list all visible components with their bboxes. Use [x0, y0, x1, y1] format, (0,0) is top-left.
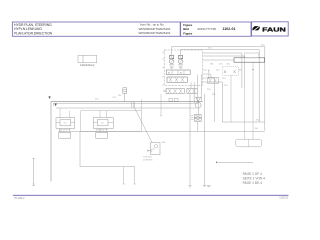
mounting hatch right cylinder: [96, 129, 109, 132]
FAUN logo text: [262, 28, 286, 34]
bus line third: [56, 107, 196, 109]
flow arrow marker top-left: [48, 96, 50, 99]
small connector symbols below cluster A: [169, 98, 178, 101]
svg-text:150: 150: [101, 122, 104, 124]
serial range label: [140, 23, 165, 27]
svg-text:oil HLP46: oil HLP46: [143, 160, 153, 162]
figure label DE: [183, 27, 189, 31]
steering cylinder left: [56, 118, 75, 129]
main circuit boundary left: [51, 102, 203, 182]
nested corner wires right of valve block: [203, 53, 245, 88]
title text EN: [14, 23, 52, 27]
tank text labels: [143, 157, 153, 162]
diagonal hose to pump unit: [135, 108, 152, 143]
svg-text:Figure: Figure: [183, 31, 192, 35]
wire cylinder stub left: [60, 108, 69, 133]
svg-text:Fahrtrichtung: Fahrtrichtung: [80, 64, 95, 67]
svg-text:06151777748: 06151777748: [198, 27, 217, 31]
valve block left port stubs: [162, 53, 164, 86]
wire from valve to sensor box: [203, 59, 235, 61]
svg-text:PAGE 1 DE 4: PAGE 1 DE 4: [243, 181, 262, 185]
sensor dashed box: [223, 67, 239, 76]
label 150 right upper: [256, 119, 260, 121]
svg-text:PLAN.HYDR.DIRECTION: PLAN.HYDR.DIRECTION: [14, 31, 53, 35]
title block box 1 (titles + serial numbers): [12, 22, 180, 36]
svg-text:1102-01: 1102-01: [223, 27, 236, 31]
port stubs right of valve block: [203, 69, 212, 84]
coupling boxes below pump: [191, 115, 201, 122]
wire cylinder stub right: [100, 111, 107, 133]
drawing number: [198, 27, 217, 31]
pump unit label: [162, 142, 166, 144]
axle group box: [81, 111, 142, 131]
label 150 right lower: [255, 128, 259, 130]
title block box 2 (figure number): [181, 22, 251, 36]
port line vertical left: [32, 158, 34, 185]
mid components cluster (shuttle valves): [208, 70, 219, 84]
junction hatch on bus: [132, 102, 135, 108]
tank bottom left: [80, 167, 136, 184]
solenoid valve Y1: [169, 55, 174, 68]
svg-text:150: 150: [64, 122, 67, 124]
page number text: [243, 172, 266, 185]
small labels cluster: [207, 64, 242, 96]
svg-text:WFN6RUDFT02026101: WFN6RUDFT02026101: [139, 31, 171, 35]
figure label EN: [183, 23, 192, 27]
serial number 1: [139, 27, 171, 31]
solenoid valve Y2: [178, 55, 183, 68]
pump circle: [195, 102, 201, 108]
second bus line: [54, 103, 200, 106]
footer left text: [14, 197, 25, 200]
tank symbol under wire 205: [203, 186, 211, 187]
FAUN logo mark: [253, 25, 261, 31]
label 110 above bus: [95, 99, 99, 101]
svg-text:Tank 80 l: Tank 80 l: [143, 157, 152, 159]
right sensor box: [234, 53, 265, 139]
footer right text: [279, 197, 289, 200]
title text DE: [14, 27, 42, 31]
wire top feed line 2: [181, 49, 260, 122]
figure code 1102-01: [223, 27, 236, 31]
steering valve block enclosure: [164, 50, 202, 85]
wire bus to axle box right: [141, 99, 143, 111]
mounting hatch left cylinder: [59, 129, 72, 132]
svg-text:HY-280-2: HY-280-2: [14, 197, 25, 200]
label 210 mid: [208, 48, 212, 50]
wire long return line: [59, 131, 265, 133]
wire filter drop: [160, 94, 162, 116]
footer rule: [13, 195, 289, 196]
label 210 top right: [261, 45, 265, 47]
figure label FR: [183, 31, 192, 35]
svg-text:FAUN: FAUN: [262, 28, 286, 34]
svg-text:PAGE 1 OF 4: PAGE 1 OF 4: [243, 172, 262, 176]
wire vertical pair right middle: [208, 78, 222, 122]
pump filter triangle: [196, 97, 201, 101]
lower small box under right cylinder: [96, 133, 108, 139]
serial number 2: [139, 31, 171, 35]
svg-text:SEITE 1 VON 4: SEITE 1 VON 4: [243, 176, 266, 180]
flow arrow marker on bus: [55, 104, 57, 107]
title block box 3 (FAUN logo box): [252, 22, 289, 36]
wire pump vertical: [197, 101, 199, 131]
wire cooler feed left: [243, 88, 245, 139]
title text FR: [14, 31, 53, 35]
oil cooler box: [236, 139, 262, 147]
wire valve block down-left legs: [190, 75, 205, 186]
small valve above bus: [118, 88, 127, 102]
wire from axle box down: [79, 131, 81, 167]
port line with marker: [216, 161, 253, 163]
flow divider cluster A below block: [163, 88, 184, 93]
valve section row: [167, 77, 187, 82]
valve manifold bar: [166, 70, 190, 75]
driving direction indicator (truck outline): [78, 55, 97, 62]
flow divider cluster B below block: [187, 88, 197, 93]
emergency pump unit: [148, 143, 160, 155]
wire sensor box down: [230, 75, 232, 122]
lower small box under left cylinder: [59, 133, 71, 139]
label 201 above bus: [113, 97, 117, 99]
tank symbol under wire 190: [189, 186, 192, 188]
wire horizontal to right verticals upper: [222, 121, 264, 123]
label Fahrtrichtung: [80, 64, 95, 67]
steering cylinder right: [93, 118, 113, 129]
svg-text:1102-01: 1102-01: [279, 197, 289, 200]
wire top feed line 1: [172, 47, 265, 131]
